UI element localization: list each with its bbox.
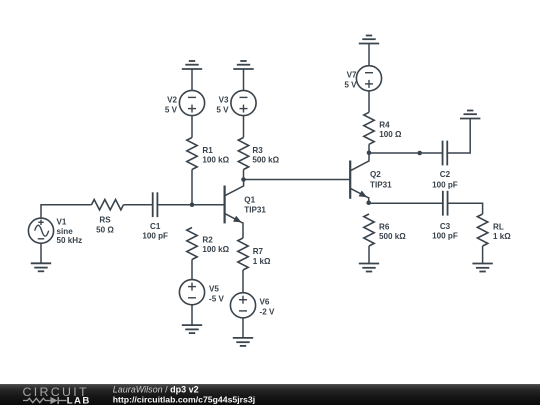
wire <box>369 202 443 204</box>
svg-text:50 kHz: 50 kHz <box>57 236 83 245</box>
svg-text:sine: sine <box>57 227 74 236</box>
wire <box>191 69 193 90</box>
svg-text:C3: C3 <box>440 222 451 231</box>
wire <box>368 44 370 66</box>
label Q2 TIP31 <box>370 170 392 189</box>
footer bar <box>0 384 540 405</box>
svg-text:R2: R2 <box>202 235 213 244</box>
junction node A <box>190 202 195 207</box>
label C3 100 pF <box>432 222 458 241</box>
ground (below R6) <box>359 246 379 272</box>
svg-text:TIP31: TIP31 <box>244 206 266 215</box>
svg-text:100 pF: 100 pF <box>432 232 458 241</box>
svg-text:100 kΩ: 100 kΩ <box>202 245 229 254</box>
svg-text:V2: V2 <box>167 95 177 104</box>
wire <box>191 116 193 138</box>
svg-text:R6: R6 <box>379 223 390 232</box>
svg-text:100 pF: 100 pF <box>142 232 168 241</box>
voltage source V3 <box>231 90 256 115</box>
svg-text:1 kΩ: 1 kΩ <box>253 257 271 266</box>
svg-text:RS: RS <box>99 216 111 225</box>
svg-text:R7: R7 <box>253 247 264 256</box>
ground (above V2) <box>182 61 202 69</box>
label C2 100 pF <box>432 170 458 190</box>
ground (above V3) <box>233 61 253 69</box>
svg-text:LauraWilson / dp3 v2: LauraWilson / dp3 v2 <box>113 385 199 395</box>
svg-text:-5 V: -5 V <box>209 295 224 304</box>
capacitor C1 <box>152 192 154 217</box>
svg-text:5 V: 5 V <box>216 105 229 114</box>
junction node D <box>417 151 422 156</box>
svg-text:V7: V7 <box>347 71 357 80</box>
label V1 sine 50 kHz <box>57 218 83 245</box>
label R7 1 k&#937; <box>253 247 271 266</box>
transistor Q1 <box>225 180 244 239</box>
resistor R3 <box>238 138 248 170</box>
label V3 5 V <box>216 95 229 114</box>
transistor Q2 <box>350 153 369 203</box>
label V5 -5 V <box>209 285 224 304</box>
resistor RL <box>477 214 487 246</box>
svg-text:50 Ω: 50 Ω <box>96 226 114 235</box>
capacitor C3 <box>442 191 444 216</box>
wire <box>243 116 245 138</box>
svg-text:1 kΩ: 1 kΩ <box>493 232 511 241</box>
svg-text:5 V: 5 V <box>344 81 357 90</box>
ground (below V5) <box>182 305 202 333</box>
svg-text:Q2: Q2 <box>370 170 381 179</box>
svg-text:TIP31: TIP31 <box>370 180 392 189</box>
junction node B <box>241 177 246 182</box>
svg-text:5 V: 5 V <box>165 105 178 114</box>
resistor R7 <box>238 238 248 270</box>
svg-text:100 pF: 100 pF <box>432 181 458 190</box>
junction node C <box>367 151 372 156</box>
wire <box>41 205 92 218</box>
label C1 100 pF <box>142 222 168 241</box>
wire <box>369 152 443 154</box>
wire <box>244 179 351 181</box>
svg-text:V1: V1 <box>57 218 67 227</box>
wire <box>243 170 245 180</box>
svg-text:R4: R4 <box>379 120 390 129</box>
svg-text:http://circuitlab.com/c75g44s5: http://circuitlab.com/c75g44s5jrs3j <box>113 394 255 404</box>
label R4 100 &#937; <box>379 120 402 139</box>
resistor R1 <box>187 138 197 170</box>
svg-text:500 kΩ: 500 kΩ <box>379 232 406 241</box>
label RS 50 &#937; <box>96 216 114 235</box>
voltage source V7 <box>356 66 381 91</box>
label V2 5 V <box>165 95 178 114</box>
ground (above C2 output) <box>460 111 480 119</box>
label R2 100 k&#937; <box>202 235 229 254</box>
svg-text:Q1: Q1 <box>244 195 255 204</box>
svg-text:500 kΩ: 500 kΩ <box>252 156 279 165</box>
wire <box>243 69 245 90</box>
voltage source V5 <box>179 280 204 305</box>
resistor R4 <box>364 112 374 144</box>
wire <box>447 119 470 154</box>
label R3 500 k&#937; <box>252 146 279 165</box>
capacitor C2 <box>442 141 444 166</box>
label V6 -2 V <box>260 298 275 317</box>
wire <box>242 270 244 293</box>
ground (below V1) <box>31 243 51 271</box>
label Q1 TIP31 <box>244 195 266 214</box>
wire <box>368 144 370 153</box>
ground (above V7) <box>359 36 379 44</box>
svg-text:-2 V: -2 V <box>260 308 275 317</box>
voltage source V2 <box>179 90 204 115</box>
label V7 5 V <box>344 71 357 90</box>
label R1 100 k&#937; <box>202 146 229 165</box>
voltage source V1 (sine) <box>28 218 53 243</box>
label R6 500 k&#937; <box>379 223 406 242</box>
svg-text:C1: C1 <box>150 222 161 231</box>
wire <box>191 260 193 280</box>
svg-text:100 kΩ: 100 kΩ <box>202 156 229 165</box>
wire <box>157 204 224 206</box>
wire <box>191 170 193 205</box>
junction node E <box>366 200 371 205</box>
logo resistor-diode glyph <box>23 397 67 404</box>
svg-text:LAB: LAB <box>67 395 91 405</box>
svg-text:RL: RL <box>493 223 504 232</box>
svg-text:V3: V3 <box>219 95 229 104</box>
svg-text:C2: C2 <box>440 170 451 179</box>
label RL 1 k&#937; <box>493 223 511 242</box>
voltage source V6 <box>230 293 255 318</box>
ground (below RL) <box>472 246 492 272</box>
wire <box>448 203 483 214</box>
svg-text:V6: V6 <box>260 298 270 307</box>
wire <box>368 91 370 112</box>
wire <box>124 204 153 206</box>
svg-text:V5: V5 <box>209 285 219 294</box>
resistor RS <box>92 200 124 210</box>
resistor R2 <box>187 228 197 260</box>
svg-text:R1: R1 <box>202 146 213 155</box>
svg-text:R3: R3 <box>252 146 263 155</box>
ground (below V6) <box>233 318 253 346</box>
svg-text:100 Ω: 100 Ω <box>379 130 402 139</box>
resistor R6 <box>364 214 374 246</box>
